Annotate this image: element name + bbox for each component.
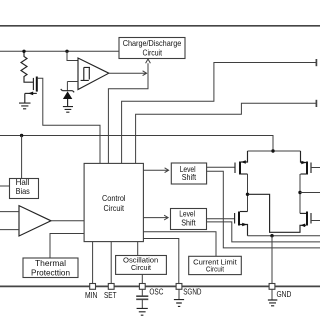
svg-text:Circuit: Circuit [131,263,152,272]
svg-text:Control: Control [102,194,126,203]
svg-text:SET: SET [104,290,117,300]
svg-text:Circuit: Circuit [206,265,225,274]
svg-text:Hall: Hall [16,178,30,187]
svg-text:Circuit: Circuit [143,49,163,58]
svg-text:GND: GND [277,289,292,299]
svg-text:Bias: Bias [16,187,30,196]
svg-text:MIN: MIN [85,290,97,300]
svg-text:OSC: OSC [149,287,163,297]
svg-text:Shift: Shift [182,173,197,182]
svg-text:Shift: Shift [181,218,196,227]
svg-text:Thermal: Thermal [35,259,66,268]
svg-text:Protecttion: Protecttion [31,268,70,277]
svg-text:SGND: SGND [183,287,201,297]
svg-text:Level: Level [179,210,195,219]
svg-text:Charge/Discharge: Charge/Discharge [123,39,182,48]
svg-text:Circuit: Circuit [104,204,125,213]
